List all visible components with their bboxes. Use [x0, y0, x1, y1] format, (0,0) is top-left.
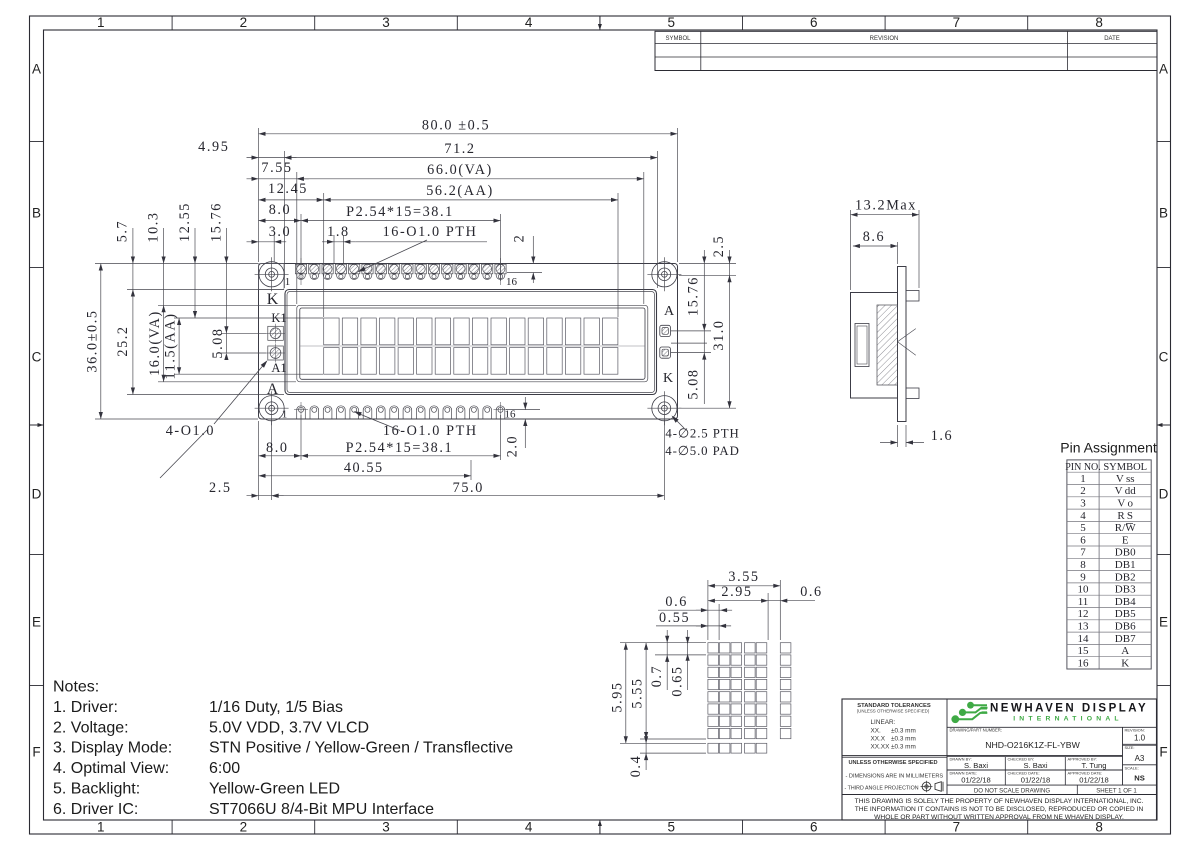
- svg-text:DB0: DB0: [1115, 547, 1136, 559]
- svg-text:1.6: 1.6: [931, 428, 954, 444]
- svg-text:7: 7: [953, 820, 961, 835]
- svg-text:12: 12: [1078, 608, 1089, 620]
- svg-text:STN Positive / Yellow-Green /: STN Positive / Yellow-Green / Transflect…: [209, 740, 513, 757]
- svg-text:75.0: 75.0: [453, 480, 484, 496]
- svg-text:6: 6: [1080, 534, 1086, 546]
- svg-text:S. Baxi: S. Baxi: [964, 761, 988, 770]
- svg-text:16: 16: [506, 276, 518, 288]
- svg-text:10.3: 10.3: [146, 211, 162, 242]
- svg-text:16-O1.0 PTH: 16-O1.0 PTH: [383, 423, 478, 439]
- svg-text:2.5: 2.5: [209, 480, 232, 496]
- svg-text:56.2(AA): 56.2(AA): [426, 183, 494, 199]
- svg-text:4.95: 4.95: [198, 139, 229, 155]
- svg-text:SYMBOL: SYMBOL: [665, 36, 691, 42]
- svg-text:6:00: 6:00: [209, 760, 240, 777]
- svg-text:4-∅2.5 PTH: 4-∅2.5 PTH: [665, 427, 739, 441]
- svg-text:5. Backlight:: 5. Backlight:: [53, 781, 140, 798]
- svg-text:8.6: 8.6: [863, 229, 886, 245]
- svg-text:2: 2: [1080, 485, 1086, 497]
- svg-text:1: 1: [282, 409, 288, 421]
- svg-text:DB2: DB2: [1115, 571, 1136, 583]
- svg-text:2.5: 2.5: [711, 235, 727, 258]
- svg-text:15.76: 15.76: [686, 276, 702, 316]
- svg-text:R/W: R/W: [1115, 522, 1136, 534]
- svg-text:DB7: DB7: [1115, 633, 1136, 645]
- svg-text:4: 4: [525, 820, 533, 835]
- svg-text:16: 16: [505, 409, 517, 421]
- svg-text:6: 6: [810, 15, 818, 30]
- svg-text:B: B: [1159, 206, 1168, 221]
- svg-text:1: 1: [1080, 473, 1086, 485]
- svg-text:B: B: [32, 206, 41, 221]
- svg-text:±0.3 mm: ±0.3 mm: [891, 744, 916, 751]
- svg-text:4: 4: [1080, 510, 1086, 522]
- svg-text:1: 1: [97, 820, 105, 835]
- svg-text:F: F: [32, 745, 40, 760]
- svg-text:R S: R S: [1117, 510, 1133, 522]
- svg-text:DRAWING/PART NUMBER:: DRAWING/PART NUMBER:: [950, 728, 1002, 733]
- svg-text:2.0: 2.0: [505, 435, 521, 458]
- svg-text:A: A: [1121, 645, 1129, 657]
- svg-text:V dd: V dd: [1115, 485, 1137, 497]
- svg-text:3. Display Mode:: 3. Display Mode:: [53, 740, 172, 757]
- svg-text:Pin Assignment: Pin Assignment: [1060, 440, 1157, 456]
- svg-text:DB3: DB3: [1115, 584, 1136, 596]
- svg-text:A3: A3: [1135, 754, 1145, 763]
- svg-text:XX.XX: XX.XX: [871, 744, 891, 751]
- svg-text:5.7: 5.7: [115, 220, 131, 243]
- svg-text:12.45: 12.45: [268, 181, 308, 197]
- svg-text:66.0(VA): 66.0(VA): [427, 162, 493, 178]
- svg-text:31.0: 31.0: [711, 319, 727, 350]
- svg-text:SYMBOL: SYMBOL: [1103, 462, 1147, 473]
- svg-text:01/22/18: 01/22/18: [961, 775, 991, 784]
- svg-text:3.0: 3.0: [269, 224, 292, 240]
- svg-text:14: 14: [1078, 633, 1090, 645]
- svg-text:E: E: [32, 615, 41, 630]
- svg-text:THE INFORMATION IT CONTAINS IS: THE INFORMATION IT CONTAINS IS NOT TO BE…: [855, 806, 1144, 813]
- svg-text:LINEAR:: LINEAR:: [871, 719, 896, 726]
- svg-text:SHEET 1 OF 1: SHEET 1 OF 1: [1096, 787, 1137, 794]
- svg-text:DB4: DB4: [1115, 596, 1136, 608]
- svg-text:REVISION: REVISION: [870, 36, 899, 42]
- svg-text:NS: NS: [1134, 774, 1145, 783]
- svg-text:P2.54*15=38.1: P2.54*15=38.1: [346, 440, 454, 456]
- svg-text:0.65: 0.65: [669, 665, 685, 696]
- svg-text:16.0(VA): 16.0(VA): [147, 310, 163, 376]
- svg-text:T. Tung: T. Tung: [1082, 761, 1107, 770]
- svg-text:4. Optimal View:: 4. Optimal View:: [53, 760, 169, 777]
- svg-text:2: 2: [240, 15, 248, 30]
- svg-text:5.55: 5.55: [630, 677, 646, 708]
- svg-text:13.2Max: 13.2Max: [855, 198, 917, 214]
- svg-text:1.0: 1.0: [1134, 734, 1146, 743]
- svg-text:S. Baxi: S. Baxi: [1023, 761, 1047, 770]
- svg-text:7: 7: [953, 15, 961, 30]
- svg-text:5: 5: [667, 15, 675, 30]
- svg-text:±0.3 mm: ±0.3 mm: [891, 728, 916, 735]
- svg-text:DB6: DB6: [1115, 621, 1136, 633]
- svg-text:1/16 Duty, 1/5 Bias: 1/16 Duty, 1/5 Bias: [209, 699, 343, 716]
- svg-text:0.6: 0.6: [665, 594, 688, 610]
- svg-text:THIS DRAWING IS SOLELY THE PRO: THIS DRAWING IS SOLELY THE PROPERTY OF N…: [855, 798, 1144, 805]
- svg-text:25.2: 25.2: [115, 325, 131, 356]
- svg-text:D: D: [1159, 487, 1169, 502]
- svg-text:C: C: [32, 350, 42, 365]
- svg-text:16-O1.0 PTH: 16-O1.0 PTH: [383, 224, 478, 240]
- svg-text:A: A: [664, 304, 675, 319]
- svg-text:DB5: DB5: [1115, 608, 1136, 620]
- svg-text:E: E: [1122, 534, 1129, 546]
- svg-text:8: 8: [1095, 820, 1103, 835]
- svg-text:8: 8: [1095, 15, 1103, 30]
- svg-text:8.0: 8.0: [266, 440, 289, 456]
- svg-text:5.08: 5.08: [210, 327, 226, 358]
- svg-text:5.95: 5.95: [609, 681, 625, 712]
- svg-text:INTERNATIONAL: INTERNATIONAL: [1013, 715, 1123, 722]
- svg-text:A: A: [32, 62, 41, 77]
- svg-text:1.8: 1.8: [327, 224, 350, 240]
- svg-text:±0.3 mm: ±0.3 mm: [891, 736, 916, 743]
- svg-text:2. Voltage:: 2. Voltage:: [53, 719, 129, 736]
- svg-text:Yellow-Green LED: Yellow-Green LED: [209, 781, 340, 798]
- svg-text:12.55: 12.55: [177, 202, 193, 242]
- svg-text:3: 3: [382, 820, 390, 835]
- svg-text:0.4: 0.4: [628, 755, 644, 778]
- svg-text:DO NOT SCALE DRAWING: DO NOT SCALE DRAWING: [974, 787, 1050, 794]
- svg-text:- DIMENSIONS ARE IN MILLIMETER: - DIMENSIONS ARE IN MILLIMETERS: [846, 774, 944, 780]
- svg-text:3: 3: [1080, 498, 1086, 510]
- svg-text:E: E: [1159, 615, 1168, 630]
- svg-text:36.0±0.5: 36.0±0.5: [85, 309, 101, 372]
- svg-text:01/22/18: 01/22/18: [1079, 775, 1109, 784]
- svg-text:71.2: 71.2: [444, 141, 475, 157]
- svg-text:DATE: DATE: [1104, 36, 1120, 42]
- svg-text:13: 13: [1078, 621, 1090, 633]
- svg-text:1. Driver:: 1. Driver:: [53, 699, 118, 716]
- svg-text:- THIRD ANGLE PROJECTION: - THIRD ANGLE PROJECTION: [845, 786, 919, 792]
- svg-text:PIN NO.: PIN NO.: [1065, 462, 1101, 473]
- svg-text:ST7066U 8/4-Bit MPU Interface: ST7066U 8/4-Bit MPU Interface: [209, 801, 434, 818]
- svg-text:0.7: 0.7: [649, 665, 665, 688]
- svg-text:9: 9: [1080, 571, 1086, 583]
- svg-text:UNLESS OTHERWISE SPECIFIED: UNLESS OTHERWISE SPECIFIED: [848, 760, 937, 766]
- svg-text:P2.54*15=38.1: P2.54*15=38.1: [346, 204, 454, 220]
- svg-text:A1: A1: [271, 361, 286, 375]
- svg-text:A: A: [1159, 62, 1168, 77]
- svg-text:8: 8: [1080, 559, 1086, 571]
- svg-text:REVISION:: REVISION:: [1125, 728, 1145, 733]
- svg-text:5: 5: [1080, 522, 1086, 534]
- svg-text:C: C: [1159, 350, 1169, 365]
- svg-text:40.55: 40.55: [344, 460, 384, 476]
- svg-text:XX.X: XX.X: [871, 736, 886, 743]
- svg-text:7.55: 7.55: [261, 160, 292, 176]
- svg-text:16: 16: [1078, 657, 1090, 669]
- svg-text:F: F: [1159, 745, 1167, 760]
- svg-text:K: K: [1121, 657, 1129, 669]
- svg-text:4: 4: [525, 15, 533, 30]
- svg-text:7: 7: [1080, 547, 1086, 559]
- svg-text:3: 3: [382, 15, 390, 30]
- svg-text:1: 1: [97, 15, 105, 30]
- svg-text:80.0 ±0.5: 80.0 ±0.5: [422, 118, 490, 134]
- svg-text:XX.: XX.: [871, 728, 882, 735]
- svg-text:0.6: 0.6: [800, 584, 823, 600]
- svg-text:11: 11: [1078, 596, 1089, 608]
- svg-text:(UNLESS OTHERWISE SPECIFIED): (UNLESS OTHERWISE SPECIFIED): [857, 709, 930, 714]
- svg-text:1: 1: [285, 276, 291, 288]
- svg-text:4-O1.0: 4-O1.0: [166, 423, 215, 439]
- svg-text:5: 5: [667, 820, 675, 835]
- svg-text:NEWHAVEN DISPLAY: NEWHAVEN DISPLAY: [990, 703, 1148, 715]
- svg-text:A: A: [267, 381, 279, 398]
- svg-text:V o: V o: [1117, 498, 1133, 510]
- svg-text:6. Driver IC:: 6. Driver IC:: [53, 801, 138, 818]
- svg-text:SCALE:: SCALE:: [1125, 766, 1139, 771]
- svg-text:DB1: DB1: [1115, 559, 1136, 571]
- svg-text:2.95: 2.95: [721, 584, 752, 600]
- svg-text:10: 10: [1078, 584, 1090, 596]
- svg-text:2: 2: [512, 234, 528, 243]
- svg-text:WHOLE OR PART WITHOUT WRITTEN: WHOLE OR PART WITHOUT WRITTEN APPROVAL F…: [874, 814, 1124, 821]
- svg-text:11.5(AA): 11.5(AA): [163, 312, 179, 379]
- svg-text:01/22/18: 01/22/18: [1021, 775, 1051, 784]
- svg-text:4-∅5.0 PAD: 4-∅5.0 PAD: [665, 444, 739, 458]
- svg-text:3.55: 3.55: [728, 569, 759, 585]
- svg-text:D: D: [32, 487, 42, 502]
- svg-text:6: 6: [810, 820, 818, 835]
- svg-text:NHD-O216K1Z-FL-YBW: NHD-O216K1Z-FL-YBW: [985, 740, 1080, 750]
- svg-text:8.0: 8.0: [269, 202, 292, 218]
- svg-text:15: 15: [1078, 645, 1090, 657]
- svg-text:5.08: 5.08: [686, 368, 702, 399]
- svg-text:SIZE:: SIZE:: [1125, 745, 1135, 750]
- svg-text:5.0V VDD, 3.7V VLCD: 5.0V VDD, 3.7V VLCD: [209, 719, 369, 736]
- svg-text:V ss: V ss: [1116, 473, 1135, 485]
- svg-text:15.76: 15.76: [209, 202, 225, 242]
- svg-text:Notes:: Notes:: [53, 679, 99, 696]
- svg-text:0.55: 0.55: [659, 610, 690, 626]
- svg-text:2: 2: [240, 820, 248, 835]
- svg-text:K: K: [663, 371, 673, 386]
